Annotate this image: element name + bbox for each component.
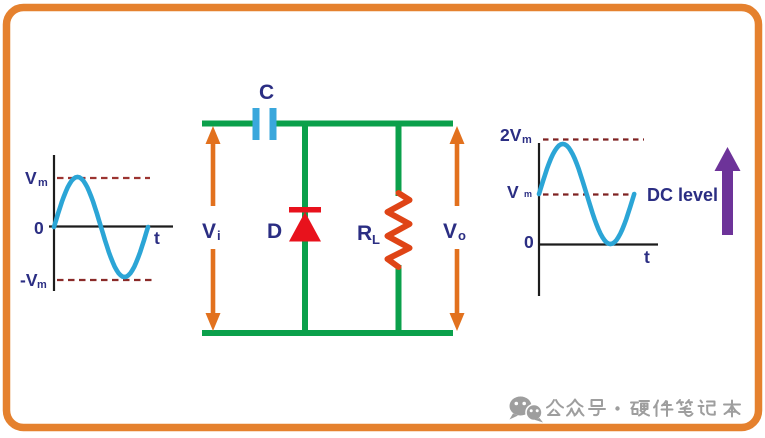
svg-text:R: R bbox=[357, 222, 372, 245]
svg-text:t: t bbox=[154, 228, 160, 248]
input sine wave Vi bbox=[54, 177, 148, 277]
wire resistor branch lower bbox=[396, 265, 402, 336]
svg-text:C: C bbox=[259, 81, 274, 104]
Vo arrow lower shaft bbox=[455, 249, 460, 316]
capacitor C1 right plate bbox=[270, 108, 277, 140]
output waveform t-axis bbox=[539, 243, 658, 245]
input waveform y-axis bbox=[53, 155, 55, 291]
DC shift arrow shaft bbox=[722, 168, 733, 235]
watermark text bbox=[547, 400, 740, 417]
svg-text:i: i bbox=[217, 228, 221, 243]
dashed level line -Vm bbox=[57, 279, 154, 281]
svg-text:m: m bbox=[524, 189, 532, 199]
svg-text:DC level: DC level bbox=[647, 185, 718, 205]
input waveform t-axis bbox=[49, 225, 173, 227]
wire top-left segment bbox=[202, 121, 253, 127]
output waveform y-axis bbox=[538, 143, 540, 296]
wire resistor branch upper bbox=[396, 121, 402, 197]
svg-text:m: m bbox=[522, 134, 532, 146]
DC shift arrow head bbox=[715, 147, 741, 171]
capacitor C1 left plate bbox=[253, 108, 260, 140]
svg-text:V: V bbox=[25, 168, 37, 188]
watermark wechat icon bbox=[510, 397, 544, 423]
dashed level line 2Vm bbox=[543, 138, 644, 140]
Vi arrow upper shaft bbox=[211, 141, 216, 206]
svg-text:D: D bbox=[267, 220, 282, 243]
wire diode branch bbox=[302, 121, 308, 337]
svg-text:0: 0 bbox=[524, 232, 534, 252]
output sine wave Vo bbox=[539, 144, 634, 244]
resistor RL zigzag bbox=[388, 193, 410, 267]
svg-text:V: V bbox=[443, 220, 457, 243]
svg-text:m: m bbox=[37, 279, 47, 291]
dashed level line Vm / DC bbox=[543, 193, 634, 195]
Vo arrow down head bbox=[450, 313, 465, 331]
svg-text:-V: -V bbox=[20, 270, 38, 290]
Vi arrow up head bbox=[206, 126, 221, 144]
wire top-right segment bbox=[276, 121, 453, 127]
svg-text:2V: 2V bbox=[500, 125, 522, 145]
diode D cathode bar bbox=[289, 207, 321, 213]
dashed level line +Vm bbox=[57, 177, 150, 179]
diode D anode triangle bbox=[289, 212, 321, 242]
svg-text:L: L bbox=[372, 232, 380, 247]
svg-text:m: m bbox=[38, 177, 48, 189]
Vo arrow up head bbox=[450, 126, 465, 144]
svg-text:V: V bbox=[507, 182, 519, 202]
wire bottom bbox=[202, 330, 453, 336]
svg-text:t: t bbox=[644, 247, 650, 267]
svg-text:V: V bbox=[202, 220, 216, 243]
Vo arrow upper shaft bbox=[455, 141, 460, 206]
Vi arrow down head bbox=[206, 313, 221, 331]
Vi arrow lower shaft bbox=[211, 249, 216, 316]
svg-text:0: 0 bbox=[34, 218, 44, 238]
svg-text:o: o bbox=[458, 228, 466, 243]
